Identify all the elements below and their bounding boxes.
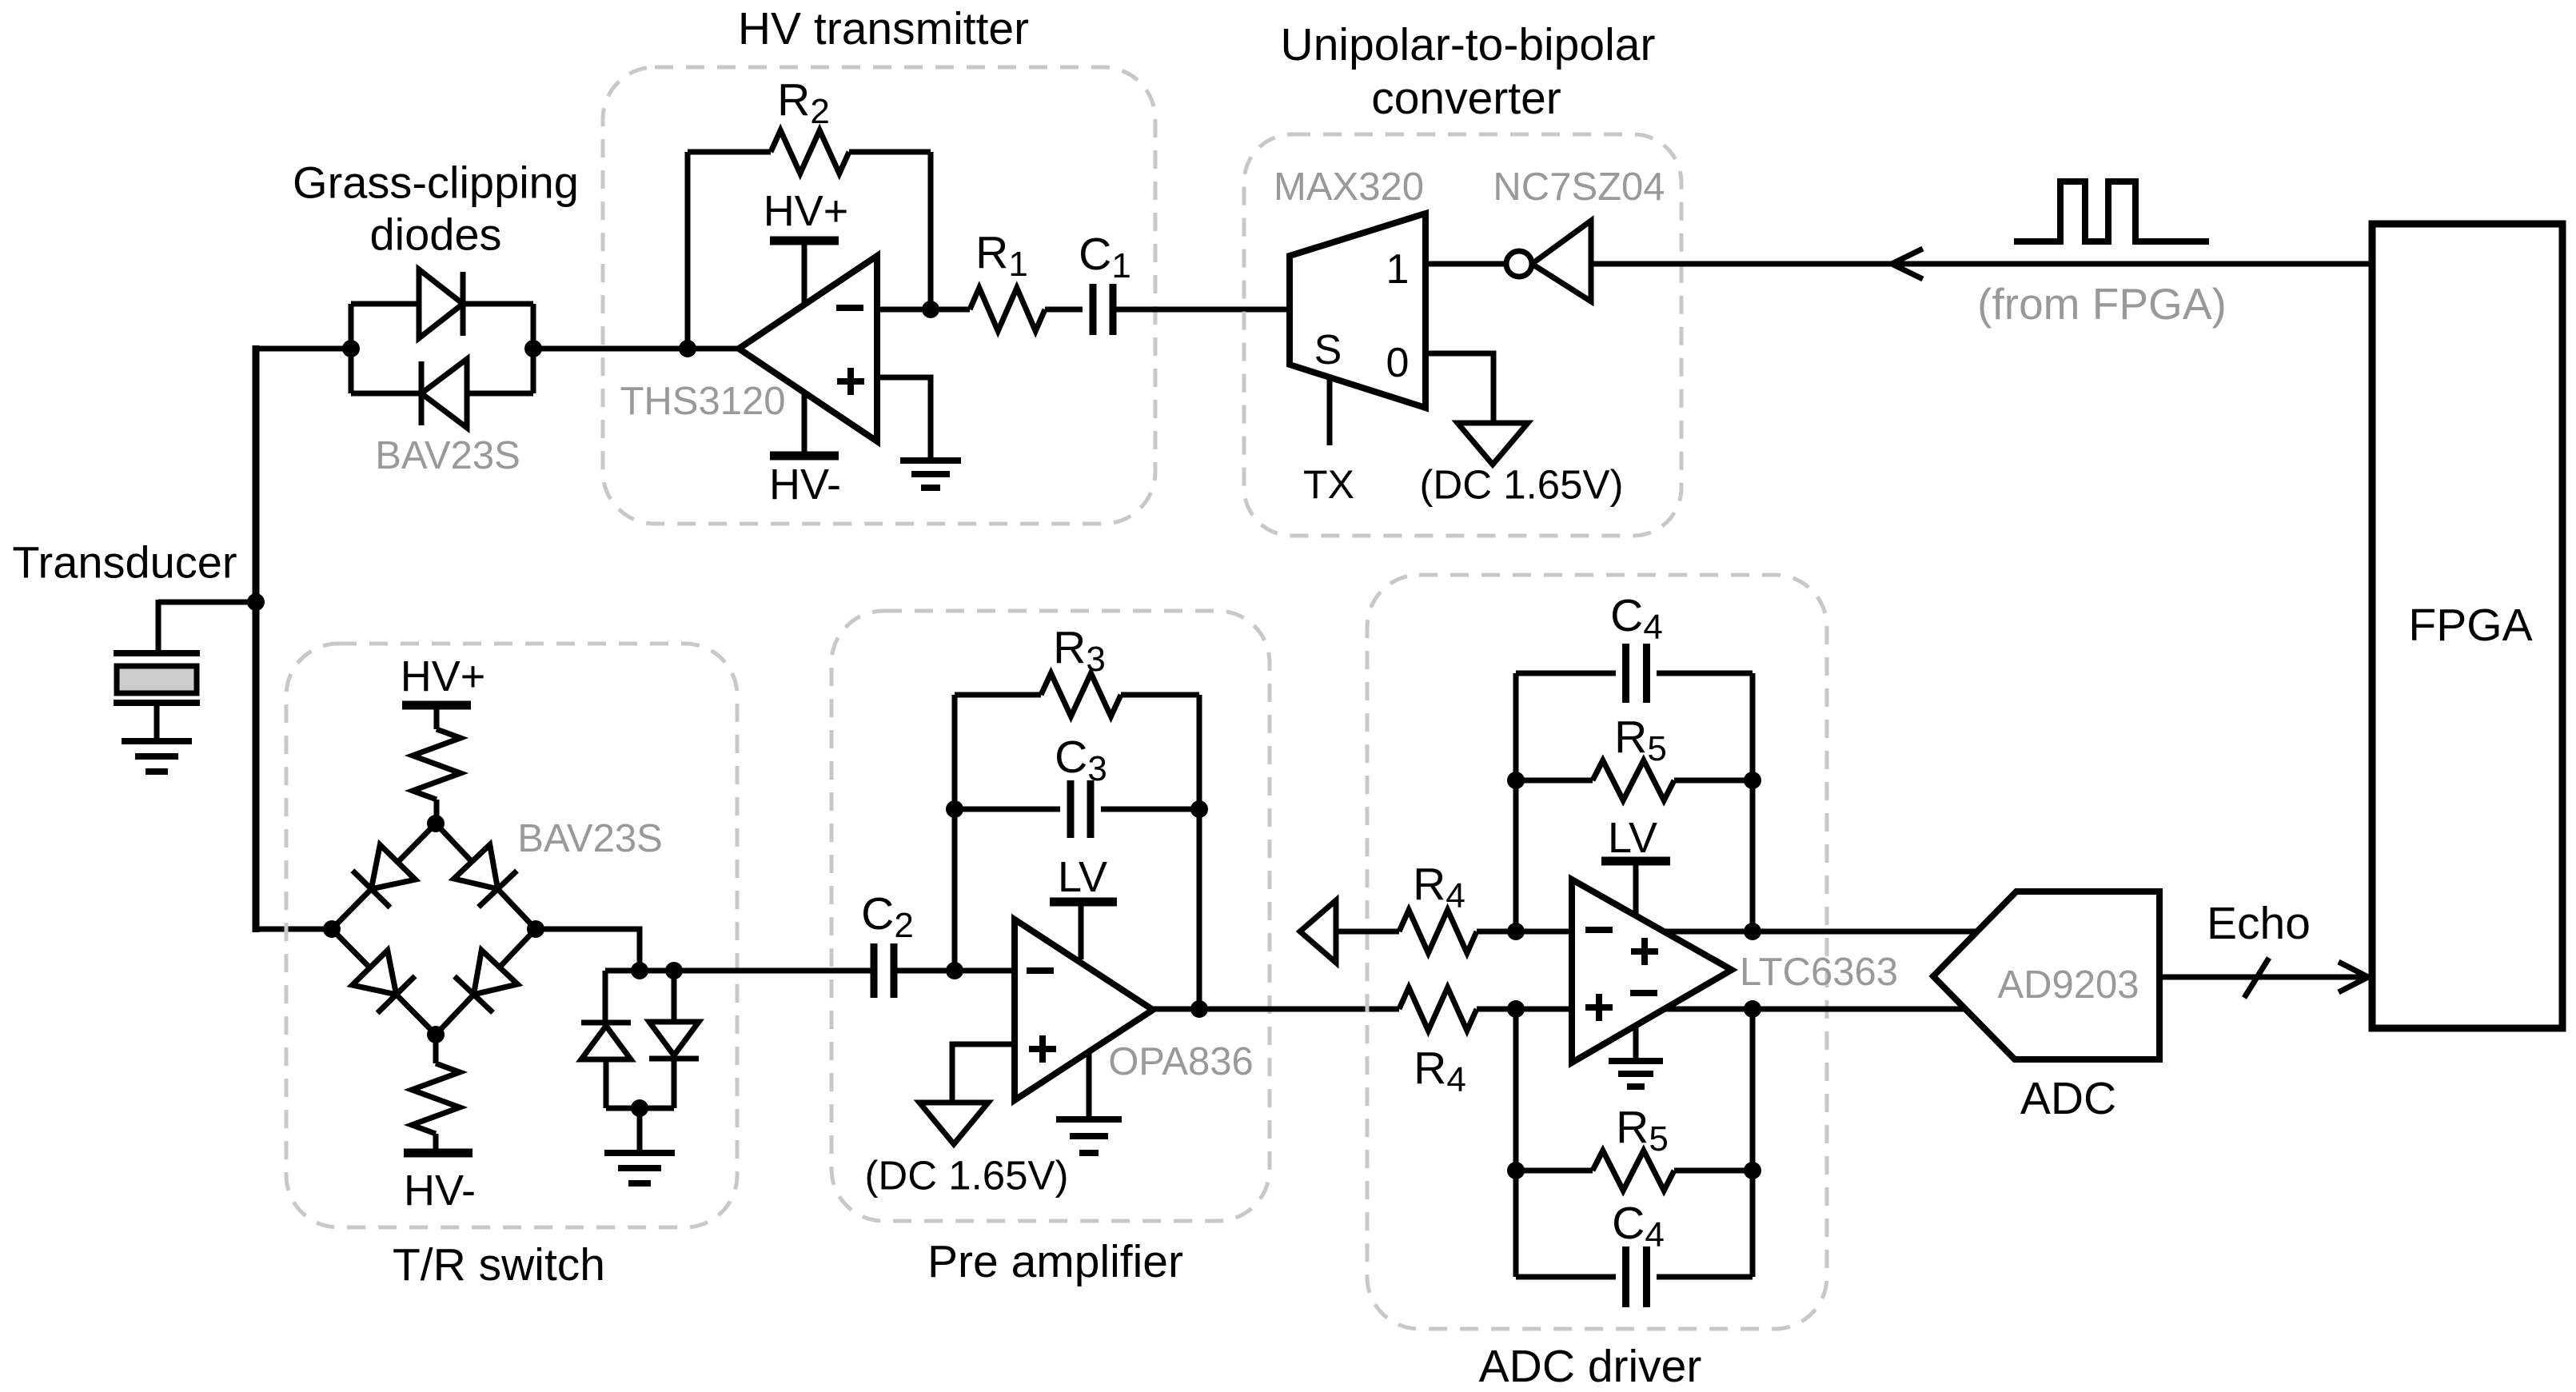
capacitor C3 — [955, 807, 1060, 812]
diode D8 clamp — [672, 971, 677, 1022]
resistor R4 top — [1399, 910, 1477, 953]
wire echo — [2159, 975, 2372, 980]
node — [1744, 1162, 1761, 1179]
wire — [877, 377, 931, 461]
node — [665, 962, 683, 979]
capacitor C1 — [1090, 284, 1097, 335]
wire — [256, 927, 332, 932]
wire 0-pin — [1426, 353, 1493, 423]
node — [427, 815, 445, 832]
wire — [877, 307, 931, 313]
ADC U6 AD9203 — [1933, 891, 2159, 1059]
node — [631, 1099, 648, 1117]
dc source arrow — [919, 1103, 988, 1144]
resistor R5 top — [1516, 778, 1593, 784]
wire — [156, 600, 161, 653]
supply HV- — [404, 1149, 473, 1158]
svg-text:Pre amplifier: Pre amplifier — [927, 1236, 1183, 1287]
wire — [685, 152, 691, 349]
ground — [900, 457, 961, 464]
wire — [952, 695, 958, 971]
svg-text:(DC 1.65V): (DC 1.65V) — [1419, 462, 1623, 508]
svg-text:LTC6363: LTC6363 — [1740, 951, 1898, 994]
svg-text:HV+: HV+ — [401, 652, 486, 700]
wire — [1113, 307, 1290, 313]
diode D2 BAV23S — [421, 359, 467, 428]
node — [631, 962, 648, 979]
mux U2 MAX320 — [1290, 213, 1426, 408]
wire + input — [952, 1044, 1015, 1103]
svg-text:Unipolar-to-bipolar: Unipolar-to-bipolar — [1281, 19, 1656, 70]
resistor R1 — [931, 307, 970, 313]
svg-text:LV: LV — [1608, 814, 1657, 862]
HV transmitter box — [603, 67, 1155, 524]
wire — [351, 301, 533, 307]
wire — [536, 929, 640, 971]
pre amplifier box — [831, 611, 1270, 1221]
svg-text:THS3120: THS3120 — [620, 380, 785, 423]
diode D5 — [353, 951, 397, 995]
svg-text:BAV23S: BAV23S — [375, 434, 520, 477]
node — [946, 800, 963, 818]
ground — [604, 1150, 675, 1156]
op-amp U1 THS3120 — [739, 256, 877, 441]
diode D7 clamp — [603, 971, 608, 1023]
svg-text:Echo: Echo — [2207, 898, 2311, 949]
wire — [533, 346, 739, 352]
wire — [256, 346, 351, 352]
node — [1507, 923, 1525, 940]
svg-text:0: 0 — [1386, 340, 1410, 386]
resistor R5 bottom — [1516, 1168, 1593, 1174]
node — [1507, 772, 1525, 789]
wire out bottom — [1665, 1007, 1965, 1012]
capacitor C4 top — [1516, 671, 1616, 676]
svg-text:ADC driver: ADC driver — [1479, 1341, 1702, 1392]
node — [1744, 923, 1761, 940]
svg-text:OPA836: OPA836 — [1108, 1040, 1254, 1083]
unipolar-to-bipolar box — [1244, 134, 1681, 536]
ground — [1633, 1025, 1639, 1061]
node — [342, 340, 360, 357]
resistor R4 bottom — [1399, 987, 1477, 1031]
capacitor C2 — [871, 943, 878, 998]
svg-text:(from FPGA): (from FPGA) — [1977, 279, 2227, 329]
FPGA U7 — [2372, 224, 2562, 1028]
svg-text:diodes: diodes — [369, 209, 501, 260]
node — [1744, 772, 1761, 789]
resistor R bias bottom — [433, 1035, 439, 1063]
wire S pin — [1327, 377, 1333, 445]
node — [679, 340, 696, 357]
svg-text:Grass-clipping: Grass-clipping — [293, 158, 579, 208]
node — [527, 920, 544, 938]
ground — [122, 738, 192, 744]
svg-text:(DC 1.65V): (DC 1.65V) — [864, 1153, 1068, 1199]
svg-text:ADC: ADC — [2020, 1073, 2116, 1124]
bus slash — [2244, 958, 2269, 998]
wire — [158, 600, 256, 605]
wire — [928, 152, 934, 309]
node — [1507, 1162, 1525, 1179]
wire output — [1153, 1007, 1399, 1012]
svg-text:S: S — [1314, 327, 1342, 373]
svg-text:AD9203: AD9203 — [1997, 963, 2139, 1007]
svg-text:LV: LV — [1058, 853, 1107, 901]
capacitor C4 bottom — [1516, 1274, 1616, 1280]
node — [323, 920, 341, 938]
fda U5 LTC6363 — [1572, 879, 1732, 1063]
svg-text:Transducer: Transducer — [12, 537, 237, 588]
node — [1507, 1000, 1525, 1018]
node — [1744, 1000, 1761, 1018]
node — [946, 962, 963, 979]
wire — [253, 345, 260, 932]
ADC driver box — [1367, 575, 1827, 1329]
node transducer junction — [247, 593, 265, 611]
node — [524, 340, 542, 357]
node — [427, 1026, 445, 1043]
wire clamp rail — [605, 968, 874, 974]
diode D3 — [371, 845, 415, 889]
inverter U3 NC7SZ04 — [1532, 221, 1591, 301]
wire — [531, 304, 536, 393]
wire loop bottom — [1513, 1009, 1519, 1277]
wire — [637, 1108, 643, 1153]
wire loop top — [1513, 673, 1519, 931]
wire — [1591, 261, 2372, 267]
wire out top — [1664, 929, 1977, 935]
diode D4 — [454, 844, 498, 888]
resistor R bias top — [413, 729, 461, 800]
svg-text:T/R switch: T/R switch — [393, 1239, 605, 1290]
diode D6 — [474, 950, 518, 994]
wire — [606, 1106, 674, 1111]
svg-text:converter: converter — [1371, 73, 1561, 124]
svg-text:FPGA: FPGA — [2408, 600, 2532, 651]
diode D1 BAV23S — [419, 269, 463, 338]
input arrow stub — [1300, 900, 1336, 963]
resistor R2 — [688, 150, 771, 155]
node — [1190, 800, 1208, 818]
node — [1190, 1000, 1208, 1018]
svg-text:HV-: HV- — [769, 461, 841, 509]
svg-text:HV transmitter: HV transmitter — [738, 3, 1029, 54]
wire — [1426, 261, 1506, 267]
arrowhead — [1892, 249, 1923, 264]
svg-text:HV+: HV+ — [764, 187, 849, 235]
echo arrowhead — [2339, 962, 2368, 977]
svg-text:1: 1 — [1386, 246, 1410, 293]
ground — [1087, 1051, 1092, 1119]
supply HV- — [770, 452, 839, 461]
T/R switch box — [286, 644, 737, 1227]
bridge wires — [332, 824, 436, 929]
resistor R3 — [955, 692, 1041, 698]
svg-text:TX: TX — [1303, 462, 1354, 507]
wire — [894, 968, 1015, 974]
wire — [1197, 695, 1202, 1010]
svg-text:BAV23S: BAV23S — [517, 817, 663, 860]
svg-text:NC7SZ04: NC7SZ04 — [1493, 166, 1665, 209]
node — [922, 301, 939, 318]
wire — [349, 304, 354, 393]
svg-text:HV-: HV- — [404, 1167, 476, 1215]
pulse waveform — [2014, 181, 2209, 241]
wire — [351, 391, 533, 397]
svg-text:MAX320: MAX320 — [1274, 166, 1424, 209]
dc source arrow — [1457, 423, 1528, 465]
op-amp U4 OPA836 — [1015, 919, 1153, 1100]
